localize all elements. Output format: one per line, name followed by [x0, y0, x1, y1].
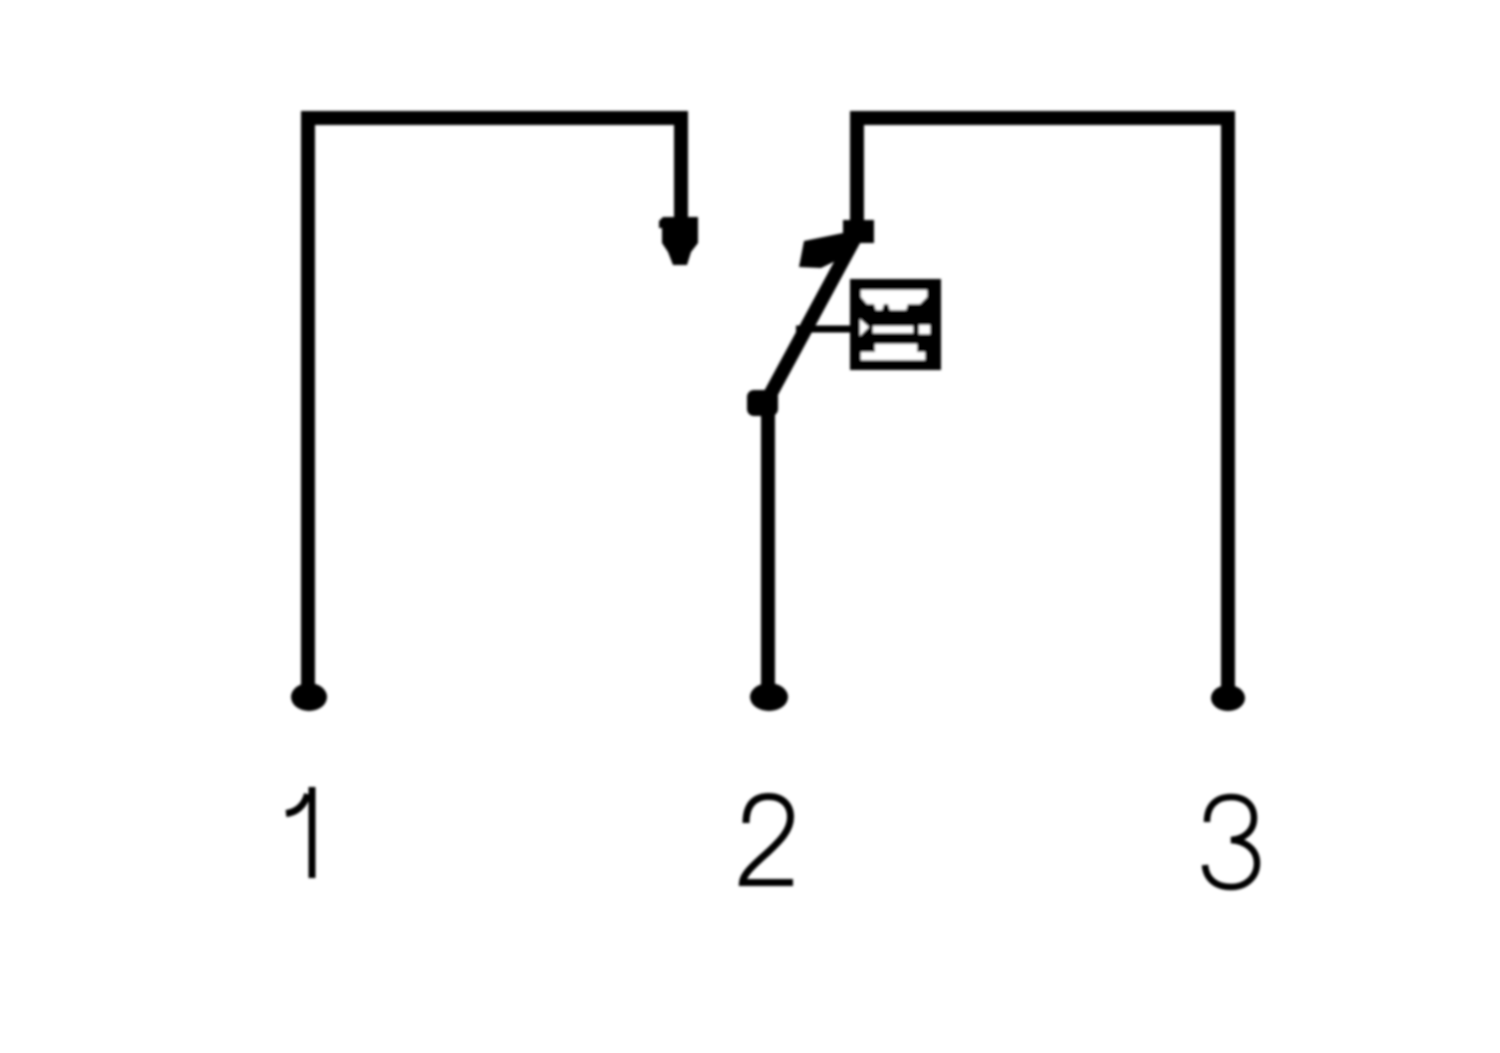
mechanism box: white bottom band (stepped) [861, 344, 925, 360]
wire: top-left horizontal rail (y=118) [301, 111, 688, 125]
wire: top-right horizontal rail (y=118) [850, 111, 1235, 125]
mechanism box: white small square right of middle bar [919, 325, 930, 334]
wire: terminal 3 riser (vertical, x=1228) [1221, 111, 1235, 700]
moving contact blob at lever tip [799, 232, 854, 268]
switch lever (moving contact arm) [764, 234, 857, 406]
pin label 1 [286, 787, 312, 878]
wire: riser from switch junction to top-right rail (x=857) [850, 111, 864, 242]
junction blob (lever meets riser to rail 3) [843, 220, 874, 243]
mechanism box: white middle bar [873, 326, 913, 333]
mechanism box (actuator symbol, black square) [850, 279, 941, 370]
link line from lever to mechanism box [796, 326, 852, 333]
mechanism box: white arrow wedge at left [860, 319, 869, 336]
fixed contact tip (arrow blob at end of pole-1 drop) [659, 217, 698, 265]
pin label 3 [1205, 797, 1257, 887]
mechanism box: white top band [861, 290, 927, 310]
wire: drop to fixed contact of pole 1 (x=681) [674, 111, 688, 244]
terminal dot 2 [750, 683, 788, 711]
terminal dot 1 [291, 683, 327, 711]
pin label 2 [743, 797, 794, 883]
pivot blob at lever base [747, 390, 778, 416]
wire: terminal 1 riser (vertical, x=308) [301, 111, 315, 700]
terminal dot 3 [1211, 685, 1245, 711]
wire: terminal 2 riser (vertical, x=768) [761, 398, 775, 700]
